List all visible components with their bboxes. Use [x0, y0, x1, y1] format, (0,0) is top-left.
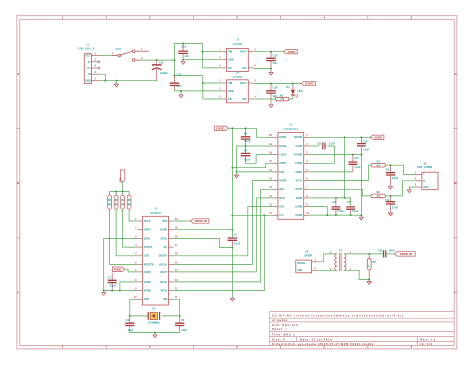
svg-text:OUTL: OUTL	[296, 180, 303, 183]
junction CPGND ground	[360, 214, 362, 216]
svg-text:100uF: 100uF	[160, 71, 168, 75]
wire CAPM pin 4	[309, 162, 335, 164]
wire U1 pin 16 to U2 SCK	[174, 207, 273, 256]
regulator U4 LP2985	[227, 80, 249, 103]
junction ID/GND	[104, 80, 106, 82]
wire U1 pin 15 to U2 DEMP	[174, 181, 273, 265]
svg-text:VOUT: VOUT	[240, 50, 248, 54]
wire U1 pin 14 to U2 BCK	[174, 198, 273, 272]
capacitor C7 0.1uF	[245, 146, 247, 153]
svg-text:AGNS: AGNS	[295, 214, 302, 217]
svg-text:B: B	[17, 181, 19, 185]
wire T1 secondary return	[344, 270, 369, 279]
svg-text:N/C: N/C	[242, 66, 247, 70]
svg-text:Rev: 1.0: Rev: 1.0	[420, 337, 436, 341]
wire ground riser	[103, 238, 105, 292]
svg-text:2.2uF: 2.2uF	[329, 143, 336, 146]
junction ground stub	[180, 90, 182, 92]
junction C12 tap	[352, 154, 354, 156]
svg-text:J3: J3	[423, 162, 426, 166]
ground C15	[269, 72, 273, 75]
svg-text:LP2985: LP2985	[233, 42, 243, 46]
junction FLT row	[231, 214, 233, 216]
capacitor C20 10nF	[384, 250, 386, 257]
svg-text:DVDD: DVDD	[160, 229, 167, 232]
DAC U2 PCM5102A	[278, 133, 304, 220]
junction C19 tap	[156, 59, 158, 61]
svg-text:0.1uF: 0.1uF	[352, 210, 359, 213]
wire AVDD to U1 pin 7	[125, 269, 138, 272]
wire OUTR to R2	[309, 189, 371, 196]
wire AGND pin 9	[309, 207, 327, 216]
wire 5V0 stem	[122, 182, 124, 191]
U2 pin numbers	[269, 134, 310, 215]
wire crystal right lead	[162, 315, 180, 317]
svg-text:GND: GND	[297, 270, 302, 272]
wire U4 N/C to R3	[253, 98, 275, 100]
junction AVDD riser bottom	[344, 197, 346, 199]
svg-text:BCK: BCK	[279, 197, 285, 200]
capacitor C9 3.3nF	[390, 165, 392, 172]
svg-text:SPDIF IN: SPDIF IN	[195, 219, 207, 223]
junction U1 pin19	[231, 229, 233, 231]
wire U1 pin 8 to ground	[120, 282, 137, 291]
svg-text:DVDD: DVDD	[216, 126, 224, 130]
svg-text:GND: GND	[228, 89, 234, 93]
junction C13 bottom	[360, 154, 362, 156]
wire R3 to LED	[289, 95, 293, 99]
global label 5V0 vertical	[120, 170, 124, 183]
svg-text:FLT: FLT	[279, 214, 284, 217]
ground C16	[181, 62, 185, 65]
global label AVDD at U2	[370, 135, 384, 139]
wire into U4 VIN	[203, 82, 222, 84]
wire U4 VIN/EN riser	[202, 76, 204, 99]
svg-text:OUTR: OUTR	[295, 188, 302, 191]
junction N/C cap ground	[270, 68, 272, 70]
wire U1 pin 12 to U2 FLT row	[174, 215, 265, 290]
junction C17 tap	[173, 75, 175, 77]
junction ground rail	[103, 290, 105, 292]
junction jumper 3	[122, 190, 124, 192]
wire ground stub	[115, 81, 117, 84]
junction C16 ground	[182, 59, 184, 61]
svg-text:CC-BY-NC license (creativecomm: CC-BY-NC license (creativecommons.org/li…	[272, 314, 404, 318]
wire crystal left lead	[130, 315, 148, 317]
wire T1 secondary to C20	[344, 253, 383, 255]
capacitor C5 0.1uF	[228, 238, 238, 240]
svg-text:Size: A: Size: A	[272, 337, 286, 341]
global label DVDD	[301, 81, 315, 85]
svg-text:C: C	[454, 290, 456, 294]
svg-text:U2: U2	[289, 123, 293, 127]
svg-text:VIN: VIN	[228, 50, 232, 54]
junction DGND caps	[245, 145, 247, 147]
S/PDIF receiver U1 WM8804	[143, 216, 169, 305]
wire 5V run to U4	[174, 75, 202, 77]
capacitor C15 1uF	[270, 52, 272, 58]
wire U4 VOUT to DVDD	[253, 83, 301, 85]
capacitor C11 3.3nF	[390, 196, 392, 202]
J1 pin stubs and numbers	[91, 56, 99, 81]
svg-text:C: C	[17, 290, 19, 294]
svg-text:NC: NC	[164, 246, 168, 249]
wire U1 SDIN pin 3 ground run	[104, 237, 138, 239]
U1 pin numbers	[134, 218, 178, 299]
junction C6 tap	[245, 127, 247, 129]
svg-text:VNEG: VNEG	[295, 171, 302, 174]
resistor R3 270R	[276, 97, 289, 101]
svg-text:AGND: AGND	[295, 206, 302, 209]
svg-text:EN: EN	[228, 66, 232, 70]
junction C16 tap	[182, 42, 184, 44]
svg-text:TXOUT: TXOUT	[144, 246, 153, 249]
wire JP1 to U1 pin 6	[110, 209, 138, 264]
svg-text:0.1uF: 0.1uF	[244, 140, 251, 143]
svg-text:AVDD: AVDD	[144, 271, 151, 274]
junction C4 ground	[350, 214, 352, 216]
wire DVDD into U2 pin 20	[257, 128, 273, 137]
svg-text:C10: C10	[317, 143, 322, 146]
junction XSMT tap	[231, 167, 233, 169]
wire U1 XOP to crystal	[130, 299, 138, 316]
svg-text:VOUT: VOUT	[240, 81, 248, 85]
svg-text:DVDD: DVDD	[305, 82, 313, 86]
svg-text:XOP: XOP	[144, 298, 150, 301]
svg-text:XIN: XIN	[163, 298, 167, 301]
svg-text:U3: U3	[236, 38, 240, 42]
wire jumper rail	[110, 190, 130, 192]
svg-text:AVDD: AVDD	[113, 267, 121, 271]
svg-text:1uF: 1uF	[177, 84, 182, 88]
svg-text:SDIN: SDIN	[144, 237, 150, 240]
ground USB	[114, 84, 118, 87]
svg-text:GND: GND	[228, 58, 234, 62]
svg-text:GND: GND	[423, 187, 428, 189]
svg-text:RX0: RX0	[162, 220, 167, 223]
ground crystal	[153, 335, 157, 338]
wire JP2 to U1 pin 5	[116, 209, 137, 256]
svg-text:SDOUT: SDOUT	[159, 255, 168, 258]
global label AVDD	[284, 50, 298, 54]
connector J2 SPDIF	[296, 260, 312, 273]
wire CPVDD to AVDD label	[309, 136, 370, 138]
svg-text:0.1uF: 0.1uF	[337, 210, 344, 213]
svg-text:12.288MHz: 12.288MHz	[148, 321, 161, 324]
wire R2 to jack ring	[385, 181, 416, 196]
capacitor C19 100uF	[156, 60, 158, 65]
svg-text:FMT: FMT	[279, 171, 285, 174]
svg-text:C12: C12	[354, 157, 359, 160]
wire 5V vertical riser	[173, 43, 175, 75]
wire U3 VOUT to AVDD	[253, 51, 283, 53]
wire into U3 VIN	[202, 51, 221, 53]
wire 5V top run to U3	[174, 42, 202, 44]
svg-text:SCK: SCK	[279, 206, 284, 209]
wire USB ground rail	[99, 80, 157, 82]
svg-text:10nF: 10nF	[389, 250, 395, 253]
svg-text:LED: LED	[298, 90, 303, 93]
svg-text:VIN: VIN	[228, 81, 232, 85]
jumper JP1	[109, 191, 111, 195]
svg-text:DEMP: DEMP	[279, 180, 286, 183]
svg-text:Sheet: /: Sheet: /	[272, 327, 287, 331]
svg-text:AVDD: AVDD	[296, 197, 303, 200]
svg-text:C18: C18	[273, 86, 278, 90]
junction DVDD riser	[231, 127, 233, 129]
svg-text:U4: U4	[236, 70, 240, 74]
wire 5V rail from SW1	[141, 59, 174, 61]
junction FMT ground	[236, 171, 238, 173]
junction C3 tap	[335, 197, 337, 199]
svg-text:0.1uF: 0.1uF	[234, 243, 241, 246]
wire into U3 EN	[202, 67, 221, 69]
wire JP4 to U1 pin 1	[129, 209, 137, 221]
svg-text:GPO0: GPO0	[144, 229, 151, 232]
capacitor C16 1uF	[182, 43, 184, 50]
wire U1 pin 13 to U2 DIN	[174, 189, 273, 282]
junction C1 ground	[111, 290, 113, 292]
svg-text:C13: C13	[363, 140, 368, 143]
ground U4 input	[179, 95, 183, 98]
svg-text:GPO2: GPO2	[160, 290, 167, 293]
svg-text:DGND: DGND	[144, 290, 151, 293]
svg-text:B: B	[454, 181, 456, 185]
connector J3 TRS_3.5MM	[422, 172, 438, 190]
svg-text:of audio: of audio	[272, 318, 288, 322]
wire U2 FLT pin 11	[232, 214, 272, 216]
wire CAPP to C10	[309, 145, 320, 147]
junction LED anode	[292, 83, 294, 85]
capacitor C4 0.1uF	[346, 207, 355, 209]
wire J1 ID to GND	[99, 74, 105, 81]
capacitor C6 0.1uF	[245, 128, 247, 136]
svg-text:A: A	[17, 72, 19, 76]
junction C15 tap	[270, 51, 272, 53]
wire JP3 to U1 pin 4	[123, 209, 138, 247]
svg-text:C17: C17	[177, 72, 182, 76]
wire OUTL to R1	[309, 165, 371, 180]
wire into U4 EN	[203, 98, 222, 100]
svg-text:Title: DAC 1: Title: DAC 1	[272, 332, 295, 336]
LED D1	[291, 94, 295, 96]
capacitor C10 2.2uF flying	[323, 143, 325, 150]
svg-text:U1: U1	[154, 206, 158, 210]
svg-text:3.3nF: 3.3nF	[392, 206, 399, 209]
junction crystal left	[129, 315, 131, 317]
svg-text:SCLK: SCLK	[144, 220, 151, 223]
capacitor C1 0.1uF	[111, 273, 113, 280]
wire J2 gnd to T1	[318, 269, 337, 271]
svg-text:C20: C20	[378, 250, 383, 253]
junction C11 tap	[390, 195, 392, 197]
regulator U3 LP2985	[227, 48, 249, 71]
junction jumper 2	[115, 190, 117, 192]
wire AVDD riser to pin 8	[344, 137, 346, 198]
svg-text:SW1: SW1	[115, 47, 122, 51]
connector J1 USB_MINI_B	[84, 54, 91, 84]
capacitor C18 1uF	[270, 84, 272, 91]
junction AGND	[326, 214, 328, 216]
svg-text:DIN: DIN	[279, 188, 283, 191]
svg-text:C15: C15	[273, 54, 278, 58]
wire U1 pin 18 to C5 ground	[174, 238, 233, 247]
junction crystal ground	[154, 332, 156, 334]
wire R1 to jack tip	[385, 165, 416, 174]
wire U3 N/C to cap ground	[253, 68, 271, 70]
svg-text:AGND: AGND	[144, 281, 151, 284]
wire DVDD run	[228, 127, 256, 129]
svg-text:SPDIF: SPDIF	[304, 254, 312, 258]
junction U3 VIN	[201, 51, 203, 53]
svg-text:USB_MINI_B: USB_MINI_B	[77, 47, 94, 51]
wire C10 to CAPM riser	[327, 146, 334, 163]
ground T1	[367, 282, 371, 285]
junction R4 tap	[368, 253, 370, 255]
svg-text:1uF: 1uF	[184, 54, 189, 58]
global label SPDIF IN at U1	[190, 219, 208, 223]
svg-text:BCLK: BCLK	[160, 281, 167, 284]
svg-text:N/C: N/C	[242, 97, 247, 101]
svg-text:22pF: 22pF	[128, 329, 134, 332]
junction FLT wire	[263, 214, 265, 216]
svg-text:1uF: 1uF	[272, 61, 277, 65]
wire J2 signal to T1	[318, 254, 337, 262]
svg-text:0.1uF: 0.1uF	[110, 284, 117, 287]
junction 5V rail split	[173, 59, 175, 61]
junction C18 tap	[270, 83, 272, 85]
wire C7 to U2 LDOO pin 18	[246, 155, 273, 164]
ground U1	[102, 293, 106, 296]
svg-text:EN: EN	[228, 97, 232, 101]
svg-text:5V0: 5V0	[119, 177, 123, 182]
wire DVDD vertical lower segment to U1	[231, 168, 233, 238]
svg-text:GND: GND	[85, 78, 91, 82]
SW1 pin numbers	[112, 48, 143, 60]
ground C5	[230, 298, 234, 301]
ground C11	[388, 213, 392, 216]
svg-text:ID: ID	[88, 72, 91, 76]
no-connect marks on J1 D- and D+	[98, 61, 100, 70]
svg-text:DOUT: DOUT	[160, 271, 167, 274]
junction U4 VIN	[202, 82, 204, 84]
svg-text:0.1uF: 0.1uF	[244, 158, 251, 161]
wire U3 GND pin run	[183, 59, 222, 61]
transformer T1	[335, 253, 346, 271]
wire U1 RX to SPDIF IN label	[174, 220, 191, 222]
ground U2 digital	[234, 175, 238, 178]
wire VNEG pin 5	[309, 171, 353, 173]
svg-text:C19: C19	[159, 60, 164, 64]
ground U2 analog	[359, 217, 363, 220]
svg-text:GPO1: GPO1	[160, 237, 167, 240]
junction ground rail	[115, 80, 117, 82]
svg-text:LRCLK: LRCLK	[159, 263, 167, 266]
svg-text:DVDD: DVDD	[279, 136, 286, 139]
svg-text:RESETB: RESETB	[144, 263, 154, 266]
svg-text:Id: 1/1: Id: 1/1	[420, 342, 432, 346]
svg-text:X1: X1	[152, 306, 156, 310]
ground C9	[388, 186, 392, 189]
resistor R1 470R	[371, 163, 385, 167]
ground C18	[269, 105, 273, 108]
svg-text:LDOO: LDOO	[279, 154, 286, 157]
svg-text:J2: J2	[305, 249, 308, 253]
svg-text:2.2uF: 2.2uF	[354, 166, 361, 169]
wire analog ground rail	[309, 215, 362, 217]
svg-text:3.3nF: 3.3nF	[392, 177, 399, 180]
jumper JP4	[128, 191, 130, 195]
svg-text:22pF: 22pF	[182, 329, 188, 332]
capacitor C3 0.1uF	[350, 198, 352, 207]
junction AVDD riser	[344, 136, 346, 138]
wire jack sleeve to ground	[409, 187, 416, 190]
svg-text:AVDD: AVDD	[288, 50, 296, 54]
junction C13 tap	[360, 136, 362, 138]
capacitor C8 22pF	[179, 316, 181, 323]
svg-text:C16: C16	[181, 45, 186, 49]
wire U2 DGND pin 19	[237, 145, 273, 147]
U2 pin names	[279, 136, 303, 217]
svg-text:A: A	[454, 72, 456, 76]
wire crystal ground rail	[130, 332, 180, 334]
svg-text:WM8804: WM8804	[150, 211, 162, 215]
wire into U2 XSMT pin 17	[232, 163, 272, 167]
wire J1 VCC to SW1	[99, 55, 112, 57]
global label SPDIF IN at T1	[394, 252, 415, 256]
wire AVDD pin 8	[309, 197, 351, 199]
capacitor C12 2.2uF	[352, 155, 354, 162]
svg-text:TRS_3.5MM: TRS_3.5MM	[417, 165, 433, 169]
wire DGND drop	[236, 146, 238, 172]
wire U1 ground rail	[104, 290, 138, 292]
U2 pin stubs	[273, 137, 309, 215]
resistor R4 75R	[368, 254, 370, 258]
crystal X1	[148, 312, 159, 320]
jumper JP3	[122, 191, 124, 195]
svg-text:CAPP: CAPP	[296, 145, 303, 148]
global label DVDD at U2	[215, 126, 229, 130]
svg-text:D-: D-	[88, 60, 91, 64]
U1 pin names	[144, 220, 168, 301]
wire DVDD vertical to XSMT	[231, 128, 233, 167]
svg-text:AVDD: AVDD	[374, 135, 382, 139]
svg-text:SIGNAL: SIGNAL	[297, 262, 306, 265]
svg-text:XSMT: XSMT	[279, 162, 286, 165]
svg-text:2.2uF: 2.2uF	[363, 148, 370, 151]
svg-text:PCM5102A: PCM5102A	[284, 127, 298, 131]
junction C5 ground	[231, 246, 233, 248]
wire CPGND drop to analog ground	[360, 155, 362, 216]
svg-text:CAPM: CAPM	[295, 162, 302, 165]
svg-text:Date: 13 jul 2015: Date: 13 jul 2015	[300, 337, 332, 341]
junction crystal right	[179, 315, 181, 317]
svg-text:CSB: CSB	[144, 255, 149, 258]
junction C3 ground	[335, 214, 337, 216]
svg-text:DGND: DGND	[279, 145, 286, 148]
junction C9 tap	[390, 164, 392, 166]
wire U1 DVDD pin 19	[174, 229, 233, 231]
U1 pin stubs	[137, 221, 173, 299]
svg-text:CPGND: CPGND	[293, 154, 302, 157]
svg-text:C11: C11	[385, 199, 390, 202]
jumper JP2	[115, 191, 117, 195]
global label AVDD at U1	[112, 267, 124, 271]
svg-text:CPVDD: CPVDD	[294, 136, 303, 139]
junction pin8 jog	[119, 290, 121, 292]
svg-text:LP2985: LP2985	[233, 75, 243, 79]
title block	[270, 312, 455, 346]
